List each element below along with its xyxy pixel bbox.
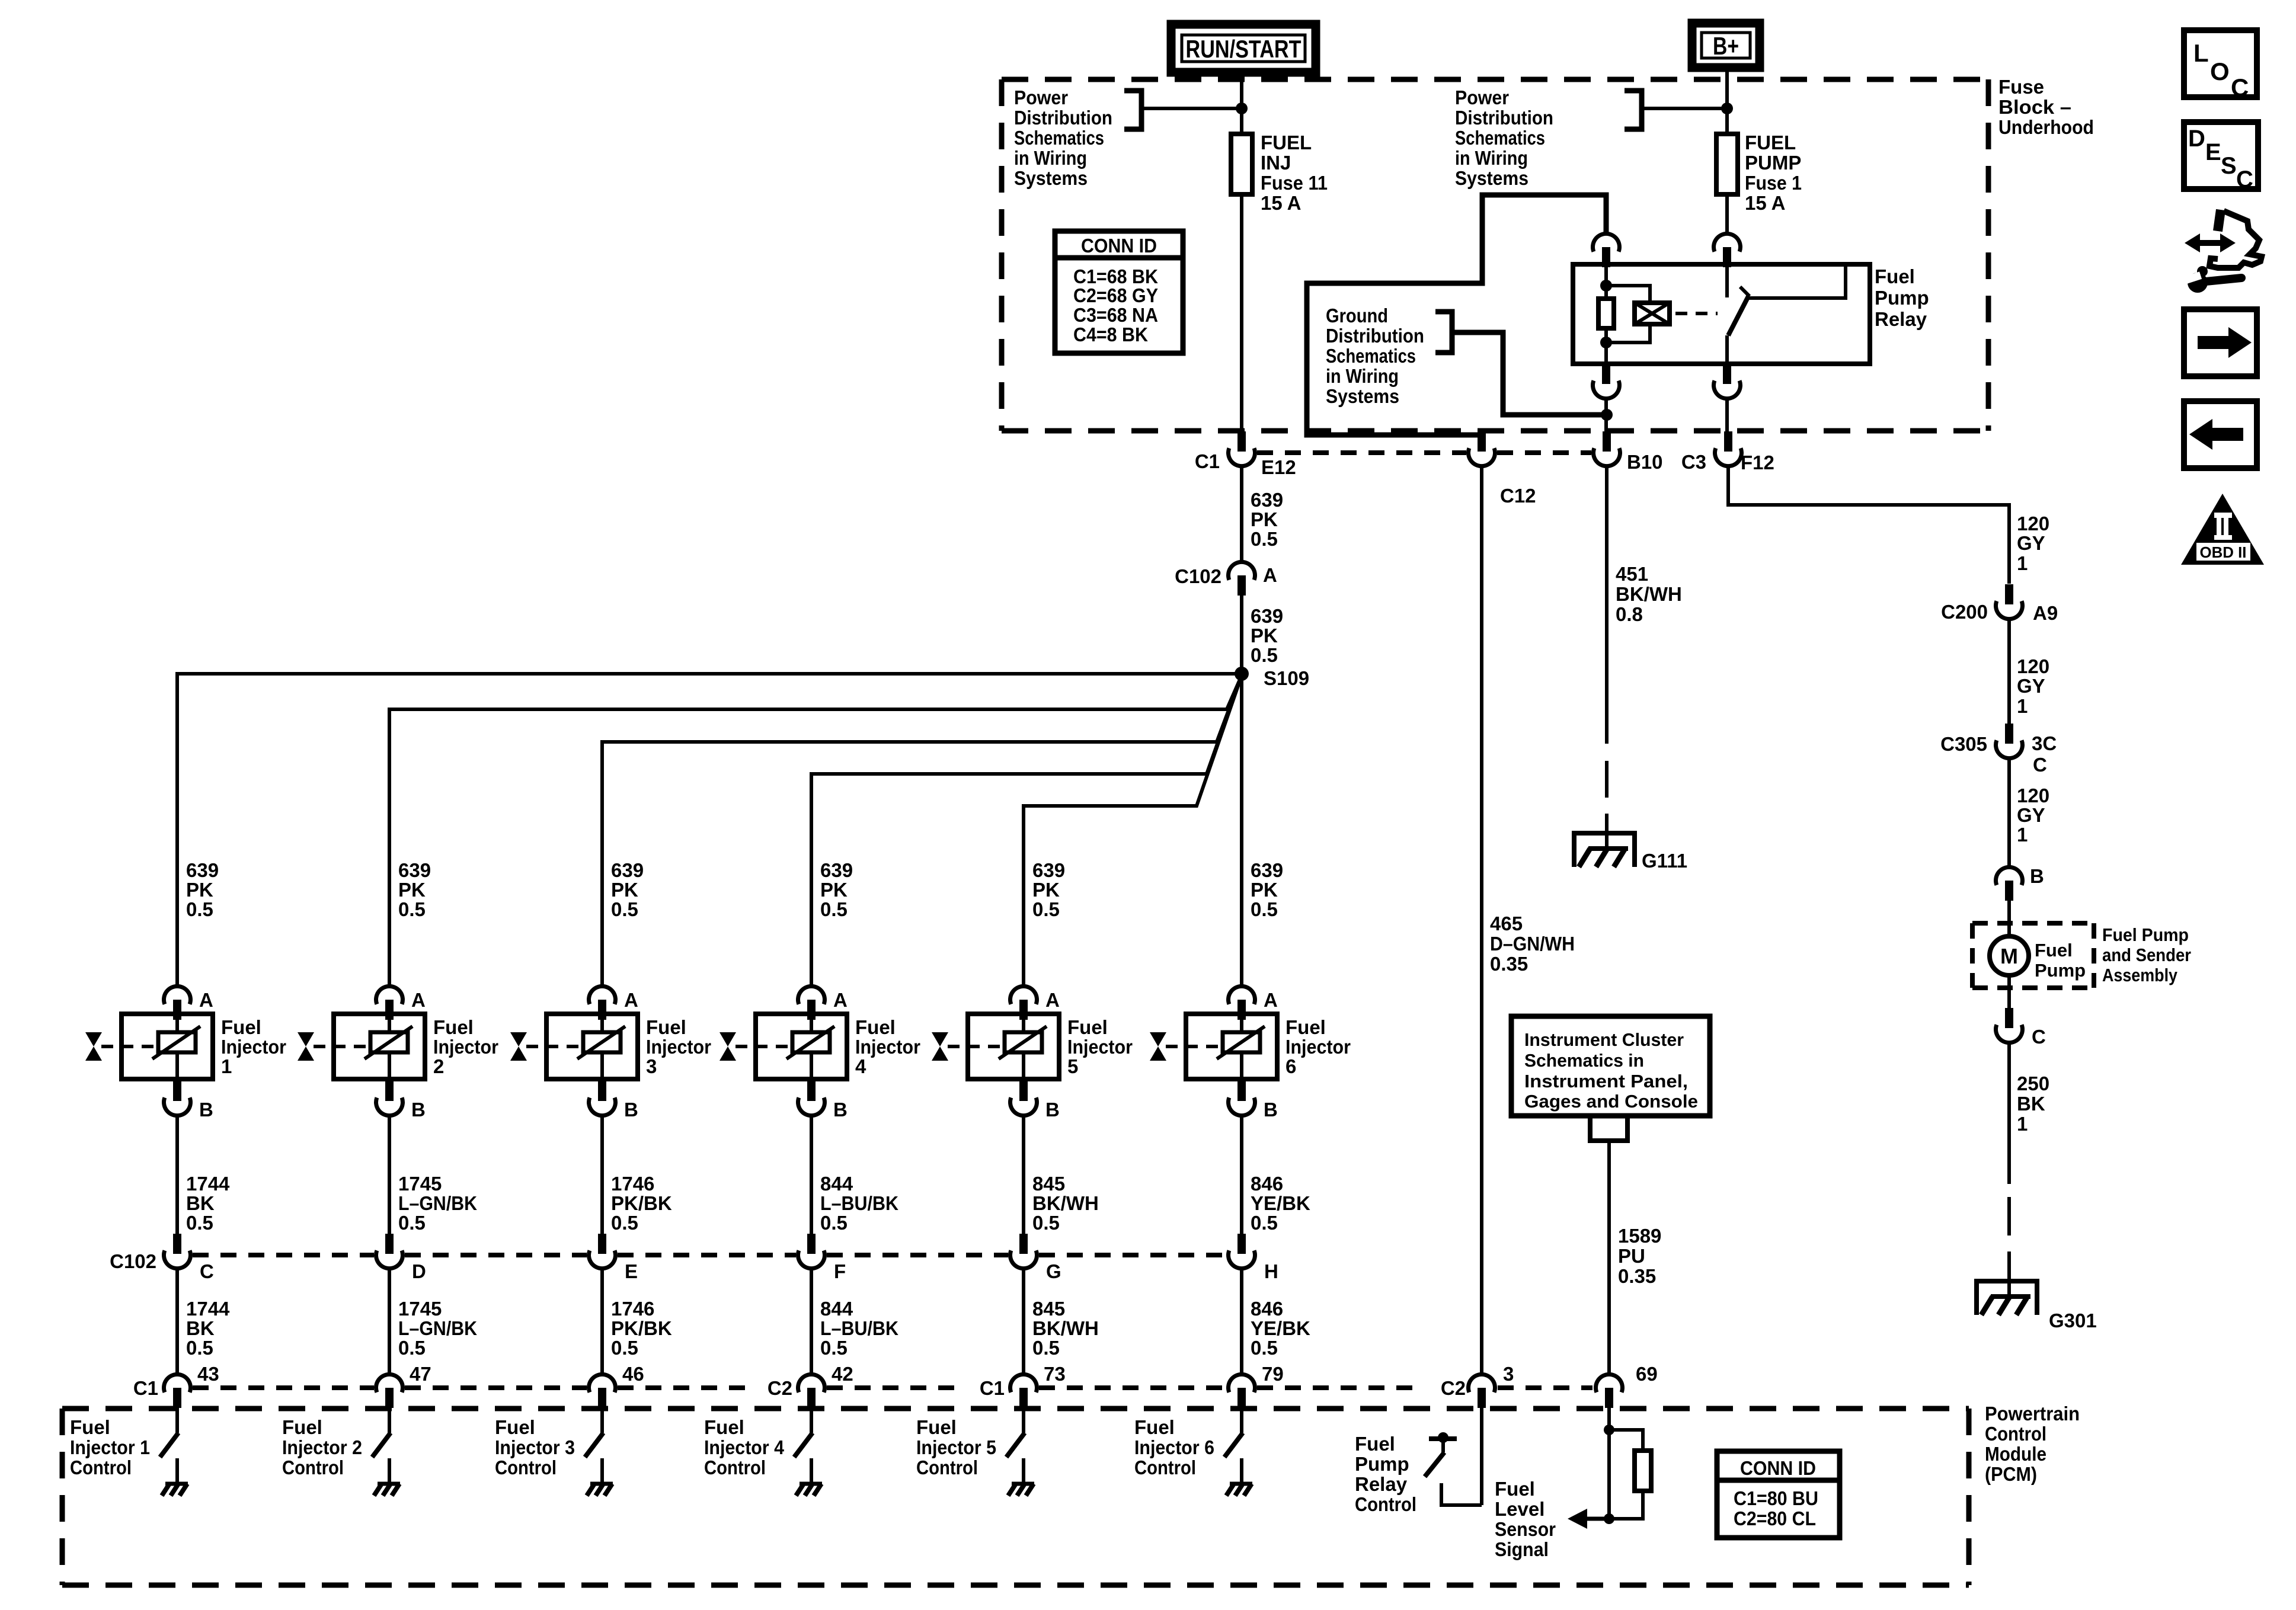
svg-text:C102: C102 [1175,565,1221,587]
wire PCM pin 46 into module [600,1407,604,1433]
svg-text:C: C [2231,73,2249,101]
connector fuel pump pin B [1996,867,2023,901]
svg-text:Fuel: Fuel [1285,1016,1326,1038]
svg-text:L–BU/BK: L–BU/BK [820,1317,898,1339]
connector C102 pin G [1010,1234,1037,1269]
relay coil resistor [1598,299,1614,328]
svg-text:Relay: Relay [1355,1473,1408,1495]
connector pin B injector 6 [1229,1081,1255,1116]
svg-text:5: 5 [1067,1055,1078,1077]
svg-text:D: D [412,1260,426,1282]
wire PCM pin 79 into module [1240,1407,1243,1433]
junction dot relay coil low side [1601,409,1613,421]
svg-text:Fuel: Fuel [646,1016,686,1038]
relay switch blade [1728,296,1748,335]
svg-text:639: 639 [1032,859,1065,881]
wire C102 E to PCM pin [600,1268,604,1375]
svg-text:C3=68 NA: C3=68 NA [1073,304,1158,326]
svg-text:Fuel: Fuel [916,1416,957,1438]
svg-text:Injector 4: Injector 4 [704,1436,785,1458]
junction dot battery feed tap [1721,103,1733,114]
instrument cluster reference box [1511,1016,1710,1116]
svg-text:A: A [411,989,426,1011]
connector pin B injector 3 [589,1081,616,1116]
svg-text:Distribution: Distribution [1455,107,1553,129]
connector C102 pin F [798,1234,825,1269]
label circuit 451 BK/WH 0.8 [1616,563,1682,625]
svg-text:Fuel: Fuel [1875,265,1915,287]
connector PCM pin 3 [1469,1374,1495,1408]
svg-text:Injector 3: Injector 3 [495,1436,575,1458]
svg-text:Fuse 11: Fuse 11 [1261,172,1328,194]
svg-text:A: A [199,989,213,1011]
svg-text:Injector 6: Injector 6 [1134,1436,1214,1458]
svg-text:Fuel: Fuel [495,1416,535,1438]
wire injector 2 control to C102 [388,1116,391,1234]
svg-text:1: 1 [221,1055,232,1077]
svg-text:S109: S109 [1264,667,1309,689]
svg-text:GY: GY [2017,532,2045,554]
label Fuel Injector 6 Control [1134,1416,1214,1478]
svg-text:845: 845 [1032,1173,1065,1195]
relay solenoid winding symbol [1635,303,1670,324]
svg-text:0.8: 0.8 [1616,603,1643,625]
fuel injector 1 body [101,1014,213,1079]
PCM internal ground injector 3 [587,1484,613,1496]
svg-text:Control: Control [282,1457,344,1478]
wire fuse 1 to relay switch pin [1725,194,1729,234]
relay switch contact tick [1740,287,1750,296]
wire relay coil low side to B10 [1604,399,1608,433]
svg-text:120: 120 [2017,513,2049,534]
fuel pump relay box [1573,264,1870,364]
wire pin B to fuel pump motor [2007,901,2011,936]
svg-text:B10: B10 [1627,451,1663,473]
connector pin A injector 4 [798,986,825,1020]
svg-text:0.5: 0.5 [1251,1337,1278,1359]
svg-text:C: C [2033,754,2047,776]
svg-text:BK/WH: BK/WH [1032,1317,1099,1339]
reference Power Distribution Schematics in Wiring Systems (right) [1455,87,1553,189]
wire PCM pin 43 into module [175,1407,179,1433]
wire C102 H to PCM pin [1240,1268,1243,1375]
connector pin A injector 6 [1229,986,1255,1020]
svg-text:639: 639 [820,859,853,881]
icon back arrow [2184,401,2257,468]
svg-text:C2: C2 [1441,1377,1466,1399]
svg-text:C3: C3 [1681,451,1706,473]
svg-text:A: A [1263,564,1277,586]
connector PCM pin 79 [1229,1374,1255,1408]
wire PCM pin 42 into module [810,1407,813,1433]
connector pin B injector 5 [1010,1081,1037,1116]
wire S109 to injector 4 [811,676,1242,984]
wire S109 to injector 1 [177,674,1242,984]
svg-text:A9: A9 [2033,602,2058,624]
PCM driver switch injector 1 [160,1433,178,1484]
svg-text:0.5: 0.5 [1251,1212,1278,1234]
label circuit 120 GY 1 segment 3 [2017,785,2049,846]
wire E12 to C102 [1240,466,1243,562]
fuel pump motor M [1990,936,2029,975]
svg-text:C1: C1 [980,1377,1005,1399]
label circuit 1589 PU 0.35 [1618,1225,1661,1287]
svg-text:in Wiring: in Wiring [1455,147,1528,169]
instrument cluster output bracket [1590,1116,1627,1141]
svg-text:PK: PK [820,879,848,901]
svg-text:Relay: Relay [1875,308,1927,330]
connector PCM pin 69 [1596,1374,1623,1408]
svg-text:BK/WH: BK/WH [1616,583,1682,605]
svg-text:0.5: 0.5 [186,898,213,920]
svg-text:845: 845 [1032,1298,1065,1320]
svg-text:FUEL: FUEL [1261,132,1312,153]
svg-text:Fuse: Fuse [1998,76,2044,98]
label circuit 845 BK/WH 0.5 (upper) [1032,1173,1099,1234]
label circuit 1745 L–GN/BK 0.5 (upper) [398,1173,477,1234]
label Fuel Pump Relay Control [1355,1433,1416,1515]
wire C102 C to PCM pin [175,1268,179,1375]
wire C102 D to PCM pin [388,1268,391,1375]
svg-text:Systems: Systems [1014,167,1088,189]
svg-text:1: 1 [2017,552,2028,574]
wire fuel pump relay coil feed from C12 [1307,195,1606,435]
connector pin A injector 5 [1010,986,1037,1020]
icon OBD II [2181,494,2264,565]
svg-text:E: E [2205,139,2221,165]
connector C200 A9 [1996,584,2023,619]
connector pin A injector 3 [589,986,616,1020]
PCM internal ground injector 4 [796,1484,822,1496]
svg-text:Schematics: Schematics [1014,127,1104,149]
svg-text:B+: B+ [1713,32,1739,60]
svg-text:D: D [2188,126,2205,152]
svg-text:Injector: Injector [1285,1036,1351,1058]
svg-text:BK/WH: BK/WH [1032,1192,1099,1214]
svg-text:Injector: Injector [646,1036,711,1058]
svg-text:Gages and Console: Gages and Console [1524,1091,1698,1112]
svg-text:Fuel: Fuel [704,1416,744,1438]
svg-text:PK: PK [1251,625,1278,646]
svg-text:C4=8 BK: C4=8 BK [1073,324,1148,345]
fuel level sensor signal arrow [1568,1509,1609,1529]
connector PCM pin 47 [376,1374,402,1408]
PCM driver switch injector 6 [1224,1433,1243,1484]
svg-text:3: 3 [646,1055,657,1077]
injector 4 valve symbol [720,1032,736,1061]
wire S109 to injector 3 [602,676,1242,984]
connector C3 F12 [1715,431,1741,466]
svg-text:Control: Control [70,1457,132,1478]
connector PCM pin 43 [164,1374,191,1408]
label Fuel Injector 3 [646,1016,711,1077]
PCM fuel level pull-up resistor [1635,1451,1651,1491]
wire S109 to injector 2 [389,676,1242,984]
svg-text:0.5: 0.5 [1032,898,1060,920]
label Fuel Injector 5 [1067,1016,1133,1077]
svg-text:Schematics: Schematics [1455,127,1545,149]
svg-text:Control: Control [704,1457,766,1478]
svg-text:C102: C102 [110,1250,156,1272]
svg-text:Injector: Injector [433,1036,498,1058]
svg-text:H: H [1264,1260,1278,1282]
svg-text:F12: F12 [1741,452,1774,473]
fuel injector 3 body [526,1014,638,1079]
label Fuel Pump [2035,940,2086,981]
svg-text:CONN ID: CONN ID [1081,235,1157,257]
svg-text:INJ: INJ [1261,152,1291,174]
label circuit 639 PK 0.5 (injector 2 feed) [398,859,431,920]
svg-text:Control: Control [916,1457,978,1478]
PCM internal ground injector 5 [1008,1484,1034,1496]
svg-text:Fuel: Fuel [282,1416,322,1438]
svg-text:G111: G111 [1642,850,1687,872]
svg-text:BK: BK [2017,1093,2045,1115]
svg-text:PK/BK: PK/BK [611,1192,672,1214]
connector interface dotted line (C102 row) [193,1253,1226,1257]
svg-text:PK/BK: PK/BK [611,1317,672,1339]
wire PCM pin 73 into module [1022,1407,1025,1433]
wire Ground Distribution reference to relay coil low side [1452,332,1607,415]
wire B10 to ground G111 (dashed) [1605,761,1609,833]
svg-text:Injector 2: Injector 2 [282,1436,362,1458]
svg-text:42: 42 [832,1363,853,1385]
fuel pump and sender assembly dashed boundary [1972,923,2094,988]
svg-text:C1: C1 [133,1377,158,1399]
svg-text:L: L [2193,39,2209,67]
label Fuel Injector 4 [855,1016,920,1077]
svg-text:S: S [2221,153,2237,179]
connector C102 A [1229,562,1255,596]
svg-text:3C: 3C [2032,732,2057,754]
PCM driver switch injector 5 [1006,1433,1025,1484]
svg-text:C1=80 BU: C1=80 BU [1734,1487,1818,1509]
svg-text:Injector 5: Injector 5 [916,1436,996,1458]
wire S109 to injector 6 [1240,674,1243,984]
svg-text:Module: Module [1985,1443,2046,1465]
wire RUN/START ignition feed [1240,72,1243,134]
connector pin A injector 1 [164,986,191,1020]
svg-text:120: 120 [2017,655,2049,677]
connector pin B injector 2 [376,1081,402,1116]
injector 1 valve symbol [85,1032,102,1061]
wire injector 3 control to C102 [600,1116,604,1234]
svg-text:A: A [624,989,638,1011]
fuse block underhood dashed boundary [1002,79,1988,431]
connector pin B injector 4 [798,1081,825,1116]
wire S109 to injector 5 [1024,676,1242,984]
wire PCM pin 3 internal [1480,1407,1483,1505]
svg-text:0.5: 0.5 [611,1212,638,1234]
svg-text:B: B [411,1099,426,1121]
svg-text:43: 43 [197,1363,219,1385]
svg-text:1746: 1746 [611,1298,654,1320]
svg-text:B: B [833,1099,848,1121]
svg-text:846: 846 [1251,1173,1283,1195]
bracket for Ground Distribution reference [1435,312,1452,353]
relay switch pin lower connector [1714,363,1741,399]
svg-text:FUEL: FUEL [1745,132,1796,153]
svg-text:Power: Power [1455,87,1509,108]
svg-text:120: 120 [2017,785,2049,806]
fuel injector 2 body [314,1014,425,1079]
svg-text:Schematics in: Schematics in [1524,1050,1644,1071]
svg-text:Underhood: Underhood [1998,116,2094,138]
svg-text:1: 1 [2017,1113,2028,1135]
svg-text:1: 1 [2017,695,2028,717]
reference Power Distribution Schematics in Wiring Systems (left) [1014,87,1112,189]
wire right Power Distribution reference to feed [1642,107,1727,110]
wire injector 5 control to C102 [1022,1116,1025,1234]
svg-text:C1: C1 [1195,450,1220,472]
connector PCM pin 42 [798,1374,825,1408]
svg-text:B: B [1264,1099,1278,1121]
svg-text:0.5: 0.5 [611,898,638,920]
svg-text:C: C [2236,167,2253,193]
Powertrain Control Module dashed boundary [62,1409,1969,1585]
label circuit 639 PK 0.5 (injector 5 feed) [1032,859,1065,920]
label circuit 465 D-GN/WH 0.35 [1490,913,1575,975]
svg-text:Control: Control [1355,1493,1416,1515]
svg-text:Sensor: Sensor [1495,1518,1556,1540]
label Fuel Injector 4 Control [704,1416,785,1478]
svg-text:Instrument Cluster: Instrument Cluster [1524,1029,1684,1050]
wire F12 to C200 [1728,466,2009,584]
svg-text:451: 451 [1616,563,1648,585]
label circuit 639 PK 0.5 (injector 1 feed) [186,859,219,920]
svg-text:B: B [199,1099,213,1121]
svg-text:E12: E12 [1261,456,1296,478]
svg-text:0.5: 0.5 [1032,1337,1060,1359]
connector fuel pump pin C [1996,1008,2023,1043]
injector 5 valve symbol [932,1032,948,1061]
svg-text:C2=80 CL: C2=80 CL [1734,1507,1816,1529]
label Fuel Injector 5 Control [916,1416,996,1478]
label Fuel Injector 3 Control [495,1416,575,1478]
svg-text:6: 6 [1285,1055,1296,1077]
injector 6 valve symbol [1150,1032,1166,1061]
connector C1 E12 [1229,431,1255,466]
svg-text:465: 465 [1490,913,1523,934]
svg-text:Injector: Injector [1067,1036,1133,1058]
wire B10 to ground G111 (solid) [1605,467,1609,744]
label Fuel Injector 1 Control [70,1416,150,1478]
svg-text:1745: 1745 [398,1173,442,1195]
relay solenoid branch wire [1606,286,1650,343]
svg-text:GY: GY [2017,675,2045,697]
svg-text:0.5: 0.5 [820,898,848,920]
relay switch common internal wire [1748,264,1846,298]
label circuit 250 BK 1 [2017,1073,2049,1135]
svg-text:PUMP: PUMP [1745,152,1801,174]
wire B+ battery feed [1725,68,1729,134]
svg-text:639: 639 [1251,859,1283,881]
junction dot ignition feed tap [1236,103,1248,114]
svg-text:Instrument Panel,: Instrument Panel, [1524,1071,1688,1092]
label circuit 845 BK/WH 0.5 (lower) [1032,1298,1099,1359]
svg-text:G: G [1046,1260,1061,1282]
wire C12 to PCM pin 3 [1480,466,1483,1375]
label circuit 1745 L–GN/BK 0.5 (lower) [398,1298,477,1359]
label circuit 846 YE/BK 0.5 (upper) [1251,1173,1310,1234]
svg-text:L–GN/BK: L–GN/BK [398,1317,477,1339]
svg-text:Ground: Ground [1326,305,1388,327]
svg-text:and Sender: and Sender [2102,945,2191,965]
bracket for right Power Distribution reference [1625,91,1642,129]
label circuit 1744 BK 0.5 (lower) [186,1298,230,1359]
wire relay switch output to F12 [1725,399,1729,433]
svg-text:G301: G301 [2049,1310,2097,1331]
svg-text:YE/BK: YE/BK [1251,1317,1310,1339]
PCM internal ground injector 2 [374,1484,400,1496]
PCM pull-up wire bottom [1609,1491,1643,1519]
svg-text:Systems: Systems [1326,385,1399,407]
svg-text:Fuel Pump: Fuel Pump [2102,924,2189,945]
svg-text:Control: Control [495,1457,557,1478]
wire C102 F to PCM pin [810,1268,813,1375]
relay actuation dashed link [1675,312,1718,315]
wire instrument cluster to PCM pin 69 [1607,1141,1611,1375]
svg-text:in Wiring: in Wiring [1014,147,1087,169]
connector C305 3C [1996,724,2023,758]
svg-text:CONN ID: CONN ID [1740,1457,1816,1479]
svg-text:0.5: 0.5 [186,1212,213,1234]
label circuit 639 PK 0.5 (injector 4 feed) [820,859,853,920]
svg-text:B: B [2030,865,2044,887]
svg-text:0.5: 0.5 [398,1337,426,1359]
svg-text:1746: 1746 [611,1173,654,1195]
svg-text:C2: C2 [768,1377,792,1399]
svg-text:Fuse 1: Fuse 1 [1745,172,1802,194]
connector C102 pin D [376,1234,402,1269]
svg-text:B: B [624,1099,638,1121]
label Fuel Level Sensor Signal [1495,1478,1556,1560]
svg-text:1589: 1589 [1618,1225,1661,1247]
svg-text:0.5: 0.5 [611,1337,638,1359]
svg-text:Power: Power [1014,87,1068,108]
connector C12 [1469,431,1495,466]
relay switch wire upper [1725,264,1729,297]
label circuit 120 GY 1 segment 2 [2017,655,2049,717]
svg-text:Pump: Pump [1355,1453,1409,1475]
svg-text:Signal: Signal [1495,1538,1549,1560]
svg-text:79: 79 [1262,1363,1284,1385]
svg-text:Pump: Pump [2035,960,2086,981]
junction dot fuel level signal [1604,1513,1614,1524]
label circuit 846 YE/BK 0.5 (lower) [1251,1298,1310,1359]
connector C102 pin E [589,1234,616,1269]
wire relay driver to pin 3 [1441,1483,1482,1505]
svg-text:15 A: 15 A [1745,192,1785,214]
svg-text:Fuel: Fuel [1134,1416,1175,1438]
PCM internal ground injector 1 [162,1484,188,1496]
svg-text:0.5: 0.5 [186,1337,213,1359]
svg-text:C: C [200,1260,214,1282]
connector C102 pin C [164,1234,191,1269]
svg-text:OBD II: OBD II [2200,543,2247,561]
relay coil pin lower connector [1593,363,1620,399]
svg-text:639: 639 [1251,489,1283,511]
svg-text:L–GN/BK: L–GN/BK [398,1192,477,1214]
svg-text:Pump: Pump [1875,287,1929,309]
icon LOC [2184,30,2257,101]
svg-text:1: 1 [2017,824,2028,846]
svg-text:639: 639 [186,859,219,881]
PCM internal ground injector 6 [1226,1484,1252,1496]
svg-text:73: 73 [1044,1363,1066,1385]
ground G301 [1974,1281,2039,1315]
svg-text:A: A [1264,989,1278,1011]
